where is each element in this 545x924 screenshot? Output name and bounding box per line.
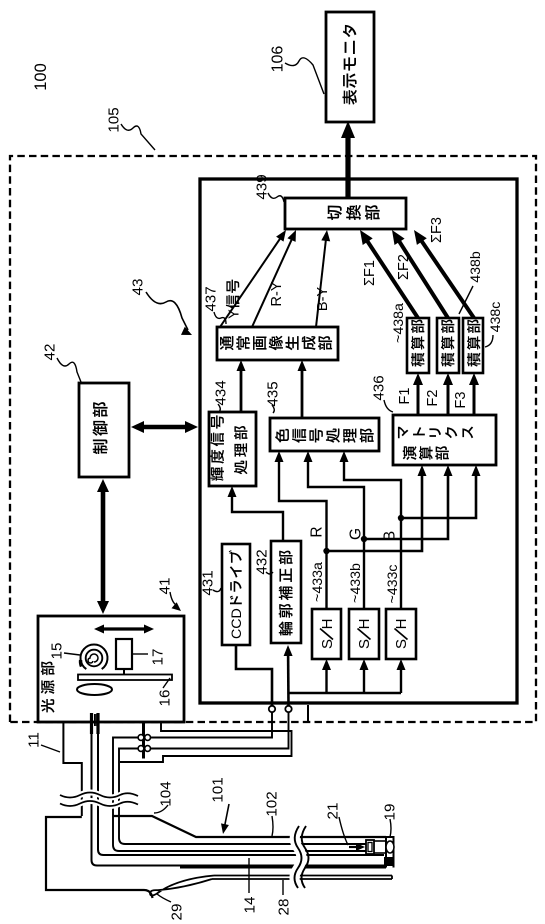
svg-text:102: 102 [263, 791, 280, 816]
B-Y line [316, 239, 326, 327]
arrow F2 [447, 383, 450, 415]
svg-text:437: 437 [202, 286, 219, 311]
signal cable 1 [113, 712, 366, 851]
arrow into S/H 433b [363, 668, 365, 693]
matrix operator box 436 [393, 415, 496, 465]
sigma-F1 line [367, 240, 418, 318]
svg-text:R-Y: R-Y [269, 281, 285, 306]
arrow F1 [417, 383, 420, 415]
display monitor box 106 [326, 12, 374, 122]
svg-text:F3: F3 [453, 392, 469, 409]
channel curve to opening 29 [150, 876, 214, 896]
sigma-F3 line [421, 240, 474, 318]
arrow into S/H 433c [400, 668, 402, 693]
svg-text:~433a: ~433a [310, 562, 326, 602]
light guide plug [90, 713, 93, 734]
svg-text:432: 432 [253, 549, 270, 574]
double arrow control-lightsource [101, 484, 106, 609]
filter 17 [116, 639, 132, 669]
CCD chip 21 [366, 840, 374, 854]
CCD drive box 431 [222, 544, 250, 645]
svg-text:438c: 438c [488, 302, 504, 333]
switching unit box 439 [285, 198, 406, 229]
integrator box 438b [437, 318, 459, 373]
integrator box 438a [407, 318, 429, 373]
signal cable 2 [119, 712, 366, 844]
filter move double arrow [99, 627, 149, 630]
condenser lens [77, 684, 112, 695]
svg-text:ΣF2: ΣF2 [396, 254, 412, 280]
housing stepped profile [120, 723, 292, 762]
tube bottom wall [180, 867, 386, 869]
R branch to matrix [327, 471, 423, 551]
color signal processor box 435 [270, 418, 379, 451]
svg-text:F1: F1 [397, 388, 413, 405]
turret plate 16 [78, 675, 172, 681]
sigma-F2 line [398, 240, 448, 318]
light guide line outer [92, 717, 387, 866]
scope body 11 [46, 817, 153, 898]
svg-text:434: 434 [212, 380, 229, 405]
svg-text:28: 28 [275, 899, 292, 916]
G line [308, 457, 364, 609]
svg-text:43: 43 [129, 279, 146, 296]
light guide end block [384, 857, 393, 866]
leader 436 [384, 400, 393, 412]
arrow F3 [473, 383, 476, 415]
housing edge at enclosure [307, 705, 309, 722]
svg-text:21: 21 [324, 803, 341, 820]
arrow into S/H 433a [325, 668, 327, 693]
svg-text:435: 435 [264, 381, 281, 406]
svg-text:~438a: ~438a [391, 303, 407, 343]
forceps channel 28 [212, 878, 392, 880]
normal image generator box 437 [217, 327, 338, 360]
integrator box 438c [463, 318, 483, 373]
svg-text:ΣF1: ΣF1 [362, 260, 378, 286]
leader 437 [214, 312, 226, 324]
svg-text:~433b: ~433b [348, 563, 364, 603]
svg-text:CCD: CCD [229, 608, 245, 639]
break squiggle connector [60, 801, 138, 806]
svg-text:ΣF3: ΣF3 [429, 217, 445, 243]
leader 42 [57, 358, 81, 382]
svg-text:431: 431 [199, 570, 216, 595]
svg-text:15: 15 [48, 643, 65, 660]
svg-text:H: H [319, 619, 336, 630]
wire 432 to 434 [232, 492, 283, 541]
svg-text:16: 16 [156, 690, 173, 707]
leader 41 arrow [170, 592, 178, 606]
svg-text:41: 41 [156, 578, 173, 595]
svg-text:H: H [393, 619, 410, 630]
break squiggle tube [295, 826, 302, 888]
svg-text:439: 439 [253, 174, 270, 199]
svg-text:S: S [356, 639, 373, 649]
svg-text:105: 105 [105, 107, 122, 132]
arrow 21 [349, 846, 360, 848]
svg-text:104: 104 [157, 781, 174, 806]
svg-text:436: 436 [370, 375, 387, 400]
svg-text:42: 42 [41, 344, 58, 361]
arrow 435 to 437 [301, 369, 304, 418]
objective lens 19 [386, 841, 394, 853]
svg-text:R: R [308, 526, 325, 537]
svg-text:11: 11 [25, 732, 42, 748]
R-Y line [252, 238, 292, 327]
dashed system enclosure 105 [10, 156, 536, 722]
wire CCD drive to connector [236, 645, 272, 706]
sample-hold feed bus [289, 692, 402, 694]
B branch to matrix [401, 471, 476, 518]
channel tip end [391, 876, 393, 880]
svg-text:B: B [381, 531, 398, 541]
svg-text:H: H [356, 619, 373, 630]
svg-text:106: 106 [270, 46, 287, 73]
svg-text:G: G [347, 528, 364, 540]
svg-text:Y: Y [227, 309, 243, 319]
connector housing outline [63, 723, 81, 816]
terminal circle 1 [269, 706, 275, 712]
svg-text:S: S [319, 639, 336, 649]
Y signal line [220, 237, 281, 327]
svg-text:19: 19 [381, 804, 398, 821]
connector contact circles [138, 735, 144, 741]
G branch to matrix [364, 471, 448, 539]
svg-text:F2: F2 [425, 390, 441, 407]
lamp 15 [86, 650, 103, 667]
sample-hold box 433a [312, 609, 341, 659]
lens barrel lines [374, 840, 386, 842]
leader 43 arrow [146, 292, 188, 330]
control unit box 42 [79, 383, 129, 477]
wire contour input [287, 654, 290, 706]
svg-text:~433c: ~433c [385, 564, 401, 603]
svg-text:17: 17 [149, 649, 166, 666]
svg-text:14: 14 [241, 897, 258, 914]
tip end line [385, 837, 387, 868]
leader 439 [268, 193, 284, 202]
light source box 41 [38, 616, 184, 722]
svg-text:B-Y: B-Y [315, 287, 331, 312]
processor unit box 43 [200, 179, 517, 703]
B line [344, 457, 401, 609]
svg-text:100: 100 [32, 63, 50, 91]
sample-hold box 433b [349, 609, 379, 659]
arrow to monitor [345, 133, 350, 197]
leader 105 [121, 124, 155, 150]
luminance signal processor box 434 [209, 412, 256, 486]
R line [279, 457, 327, 609]
sample-hold box 433c [386, 609, 416, 659]
taper to insertion tube 104 [113, 816, 386, 837]
connector mating line [142, 722, 145, 759]
svg-text:29: 29 [168, 904, 185, 921]
svg-text:101: 101 [209, 777, 226, 802]
terminal circle 2 [285, 706, 291, 712]
contour correction box 432 [271, 541, 301, 643]
light guide line inner [98, 717, 384, 855]
svg-text:S: S [393, 639, 410, 649]
tip cap [386, 837, 394, 868]
arrow 434 to 437 [240, 369, 243, 412]
svg-text:438b: 438b [468, 251, 484, 283]
double arrow control-processor [136, 425, 193, 430]
leader 106 [285, 58, 324, 94]
